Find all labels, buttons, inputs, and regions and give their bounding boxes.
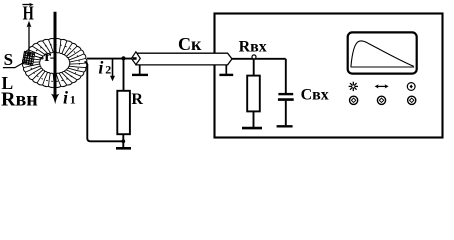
wire: loop bottom xyxy=(87,64,123,141)
toroid lead lower bend xyxy=(85,62,88,66)
ground: cable right xyxy=(225,65,227,74)
horizontal shift symbol (double arrow) xyxy=(375,84,389,88)
svg-text:i: i xyxy=(63,88,68,108)
capacitor Cin top plate xyxy=(278,93,293,95)
svg-text:Rвх: Rвх xyxy=(239,39,267,56)
svg-text:1: 1 xyxy=(70,93,76,107)
wire: cable to input node xyxy=(232,58,286,60)
toroid ring fill xyxy=(23,39,87,88)
svg-text:2: 2 xyxy=(105,63,111,77)
svg-text:i: i xyxy=(98,58,103,78)
wire: R bottom lead xyxy=(122,134,124,147)
pulse waveform trace xyxy=(351,41,414,67)
wire: Cin bottom lead xyxy=(285,101,287,125)
svg-text:Ск: Ск xyxy=(178,34,202,54)
resistor Rin xyxy=(247,76,260,112)
node: junction dot at R branch xyxy=(121,56,125,60)
ground: Cin xyxy=(277,125,293,127)
toroid winding mid line xyxy=(30,45,79,82)
knob 2 xyxy=(377,96,385,104)
wire: R branch lead xyxy=(123,59,125,91)
knob 1 xyxy=(350,96,358,104)
cable center conductor stub xyxy=(133,57,137,60)
wire: Rin bottom lead xyxy=(253,111,255,127)
H direction arrow xyxy=(28,26,30,56)
ground: Rin xyxy=(242,127,262,130)
wire: Rin lead xyxy=(253,59,255,76)
H vector bar xyxy=(22,4,31,6)
resistor R xyxy=(117,91,130,134)
focus symbol (circle with center mark) xyxy=(407,83,415,91)
screen baseline trace xyxy=(351,66,415,68)
oscilloscope screen bezel xyxy=(348,32,417,73)
toroid winding scalloped outer edge xyxy=(23,39,87,88)
ground: cable left xyxy=(139,65,141,74)
svg-text:Свх: Свх xyxy=(301,87,329,104)
node: input terminal circle xyxy=(252,55,256,59)
core cross-section S (hatched) xyxy=(22,51,35,65)
brightness symbol (8-ray star) xyxy=(349,82,358,91)
wire: toroid secondary to cable center conductor xyxy=(87,58,135,60)
ground: left loop xyxy=(116,147,131,150)
svg-text:R: R xyxy=(131,91,143,108)
current arrow i2 xyxy=(112,60,114,78)
toroid winding turns xyxy=(23,39,86,87)
svg-text:Rвн: Rвн xyxy=(1,89,38,111)
svg-text:S: S xyxy=(4,50,13,69)
capacitor Cin bottom plate xyxy=(278,98,294,101)
wire: node to capacitor xyxy=(285,59,287,93)
radius r dimension line xyxy=(40,57,44,59)
node: bottom junction dot xyxy=(121,139,125,143)
knob 3 xyxy=(408,96,416,104)
toroid inner scalloped edge xyxy=(39,52,70,74)
cable left end cap (diamond) xyxy=(131,52,140,65)
coax cable Ck body xyxy=(136,53,232,65)
conductor with current i1 (thick wire) xyxy=(54,12,57,96)
instrument box (oscilloscope enclosure) xyxy=(215,14,443,138)
svg-text:r: r xyxy=(44,48,51,65)
